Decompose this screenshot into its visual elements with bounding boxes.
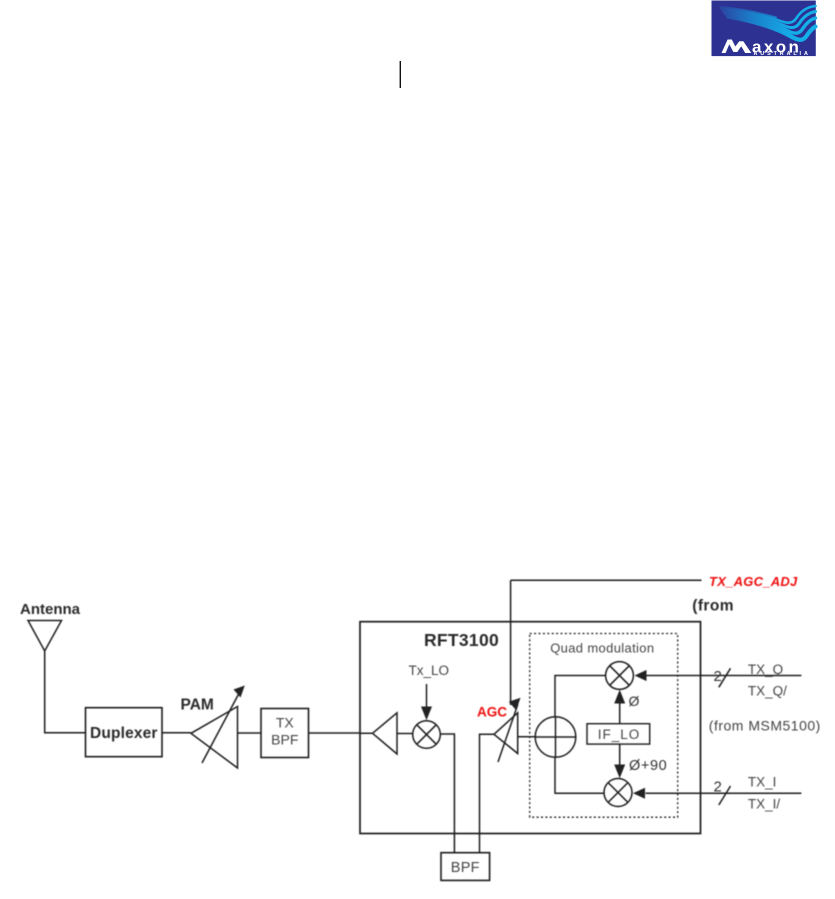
svg-text:Duplexer: Duplexer xyxy=(90,725,158,742)
svg-text:TX_I: TX_I xyxy=(748,775,777,790)
svg-text:IF_LO: IF_LO xyxy=(598,727,641,742)
svg-text:Quad modulation: Quad modulation xyxy=(550,641,654,656)
svg-text:(from: (from xyxy=(692,598,734,615)
svg-text:BPF: BPF xyxy=(451,860,480,876)
svg-text:Antenna: Antenna xyxy=(20,601,81,618)
svg-text:TX_Q: TX_Q xyxy=(748,662,783,677)
svg-text:Ø+90: Ø+90 xyxy=(629,758,667,774)
svg-text:TX_I/: TX_I/ xyxy=(748,797,781,812)
svg-text:2: 2 xyxy=(714,779,722,796)
svg-text:TX: TX xyxy=(276,715,295,731)
svg-text:(from MSM5100): (from MSM5100) xyxy=(709,718,821,734)
svg-text:AGC: AGC xyxy=(477,705,507,720)
svg-text:AUSTRALIA: AUSTRALIA xyxy=(754,51,811,57)
svg-text:PAM: PAM xyxy=(181,697,214,714)
svg-text:BPF: BPF xyxy=(271,732,298,748)
svg-text:RFT3100: RFT3100 xyxy=(424,630,499,650)
svg-text:TX_Q/: TX_Q/ xyxy=(748,684,787,699)
svg-text:TX_AGC_ADJ: TX_AGC_ADJ xyxy=(709,574,798,589)
svg-text:Ø: Ø xyxy=(629,693,640,709)
svg-text:2: 2 xyxy=(714,668,722,685)
svg-text:Tx_LO: Tx_LO xyxy=(409,663,450,678)
